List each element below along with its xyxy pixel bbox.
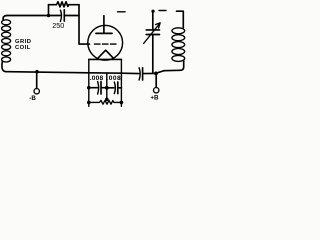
svg-text:-B: -B <box>29 95 36 102</box>
svg-text:.008: .008 <box>90 75 104 82</box>
svg-text:COIL: COIL <box>15 45 31 51</box>
svg-text:+B: +B <box>150 95 159 102</box>
svg-text:.008: .008 <box>106 75 121 82</box>
svg-text:250: 250 <box>52 21 64 30</box>
svg-text:GRID: GRID <box>15 39 32 45</box>
